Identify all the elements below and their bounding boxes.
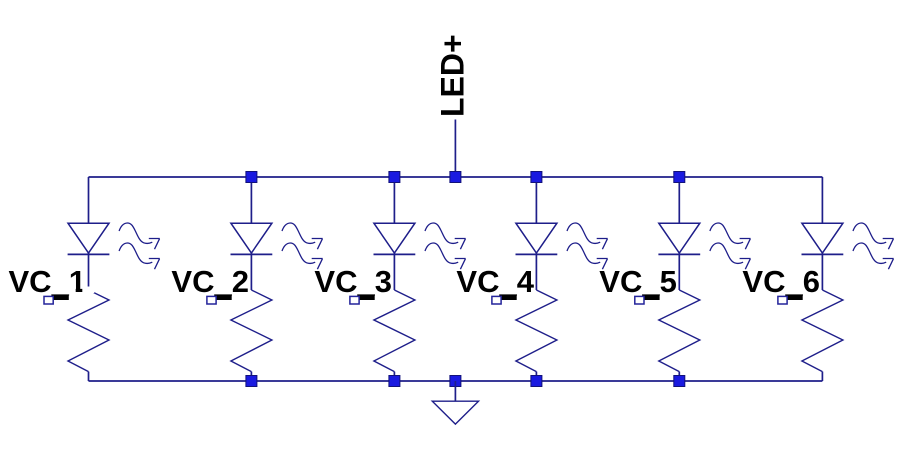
LED D3 [374,223,466,269]
junction node bottom 1 [246,376,257,387]
LED D4 [516,223,608,269]
LED D6 [802,223,894,269]
wire branch 6 mid stub [821,253,823,290]
svg-text:VC_4: VC_4 [456,264,534,299]
wire branch 4 mid stub [535,253,537,290]
wire branch 1 bottom stub [88,372,90,381]
wire branch 2 mid stub [250,253,252,290]
pin square VC_4 [492,296,501,304]
svg-text:VC_3: VC_3 [314,264,392,299]
resistor R2 [231,290,272,372]
wire branch 6 anode stub [821,177,823,224]
LED D2 [231,223,323,269]
label VC_2 [171,264,249,300]
wire bottom rail ground bus [89,380,823,382]
wire branch 3 mid stub [393,253,395,290]
junction node bottom 5 [674,376,685,387]
wire branch 2 bottom stub [250,372,252,381]
wire branch 1 anode stub [88,177,90,224]
svg-text:VC_1: VC_1 [9,264,87,299]
wire LED+ lead [454,120,456,178]
junction node top 3 [450,172,461,183]
svg-text:VC_2: VC_2 [171,264,249,299]
label VC_5 [599,264,677,300]
LED D5 [658,223,750,269]
pin square VC_1 [44,296,53,304]
wire branch 4 anode stub [535,177,537,224]
wire branch 5 mid stub [678,253,680,290]
wire branch 3 anode stub [393,177,395,224]
label VC_3 [314,264,392,300]
resistor R5 [659,290,700,372]
wire branch 3 bottom stub [393,372,395,381]
wire branch 5 bottom stub [678,372,680,381]
svg-text:VC_6: VC_6 [742,264,820,299]
pin square VC_2 [207,296,216,304]
svg-text:LED+: LED+ [435,34,471,117]
junction node top 5 [674,172,685,183]
pin square VC_3 [350,296,359,304]
pin square VC_6 [778,296,787,304]
wire branch 6 bottom stub [821,372,823,381]
wire branch 5 anode stub [678,177,680,224]
resistor R1 [68,290,109,372]
junction node top 2 [389,172,400,183]
net label LED+ [435,34,471,117]
label VC_6 [742,264,820,300]
resistor R6 [802,290,843,372]
junction node bottom 4 [531,376,542,387]
wire branch 4 bottom stub [535,372,537,381]
label VC_1 [9,264,95,300]
junction node top 1 [246,172,257,183]
junction node top 4 [531,172,542,183]
resistor R4 [516,290,557,372]
label VC_4 [456,264,534,300]
ground [432,401,478,424]
wire branch 1 mid stub [88,253,90,290]
wire top rail LED+ bus [89,176,823,178]
pin square VC_5 [635,296,644,304]
wire branch 2 anode stub [250,177,252,224]
junction node bottom 3 [450,376,461,387]
svg-text:VC_5: VC_5 [599,264,677,299]
junction node bottom 2 [389,376,400,387]
wire ground stub [454,381,456,401]
LED D1 [68,223,160,269]
resistor R3 [374,290,415,372]
